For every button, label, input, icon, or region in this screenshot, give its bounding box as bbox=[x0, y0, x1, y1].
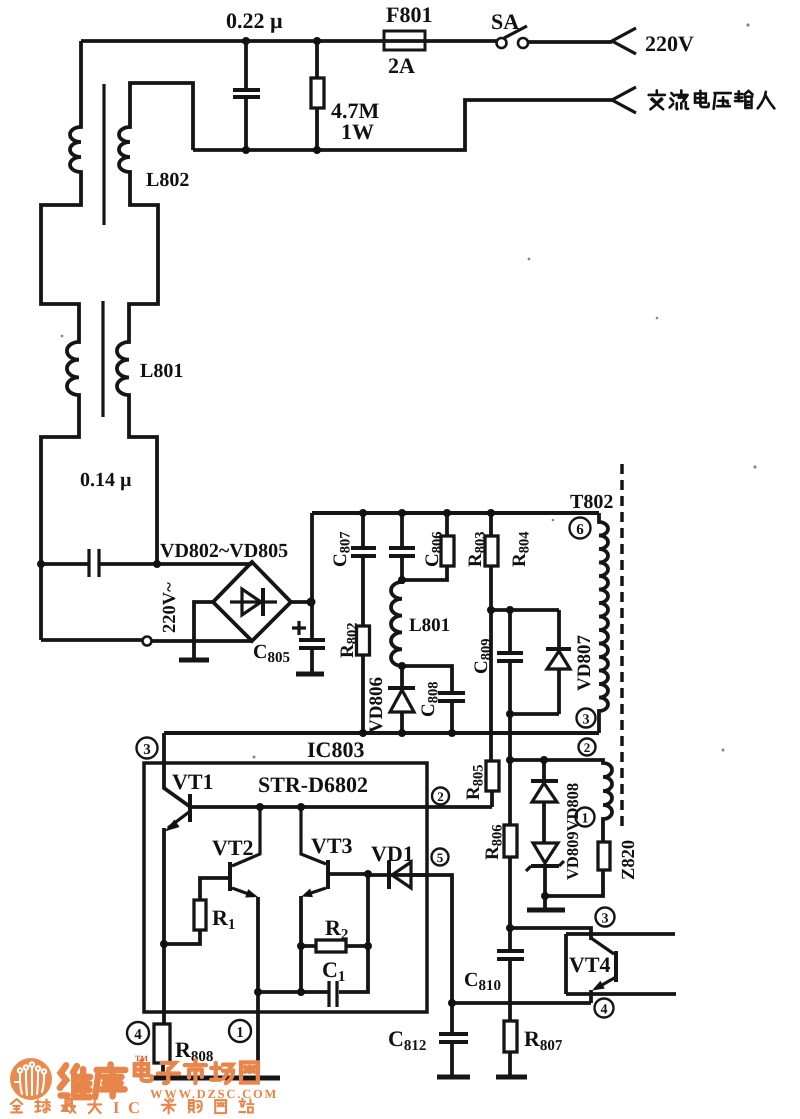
svg-text:1: 1 bbox=[236, 1025, 244, 1041]
svg-text:C808: C808 bbox=[418, 682, 442, 717]
svg-text:3: 3 bbox=[602, 912, 609, 927]
svg-text:VT3: VT3 bbox=[311, 833, 353, 858]
svg-text:R1: R1 bbox=[212, 905, 235, 933]
svg-text:VD1: VD1 bbox=[371, 841, 414, 866]
svg-text:C809: C809 bbox=[471, 639, 495, 674]
svg-text:4: 4 bbox=[134, 1027, 142, 1043]
svg-text:1W: 1W bbox=[341, 119, 374, 144]
svg-text:VD807: VD807 bbox=[574, 635, 595, 691]
svg-text:3: 3 bbox=[583, 713, 590, 728]
svg-text:C810: C810 bbox=[464, 969, 501, 994]
svg-text:WWW.DZSC.COM: WWW.DZSC.COM bbox=[150, 1087, 278, 1101]
svg-text:R802: R802 bbox=[337, 623, 361, 658]
svg-text:Z820: Z820 bbox=[619, 840, 639, 880]
svg-text:VT1: VT1 bbox=[172, 769, 214, 794]
svg-text:4: 4 bbox=[601, 1003, 608, 1018]
svg-text:F801: F801 bbox=[386, 2, 432, 27]
svg-text:6: 6 bbox=[576, 522, 584, 538]
svg-text:C805: C805 bbox=[253, 641, 290, 666]
svg-text:C812: C812 bbox=[388, 1026, 426, 1054]
svg-text:VD802~VD805: VD802~VD805 bbox=[160, 540, 288, 562]
svg-text:220V: 220V bbox=[645, 31, 694, 56]
svg-text:220V~: 220V~ bbox=[160, 582, 180, 633]
svg-text:C1: C1 bbox=[322, 957, 345, 985]
svg-text:R807: R807 bbox=[524, 1026, 563, 1054]
svg-text:R806: R806 bbox=[482, 825, 506, 860]
svg-text:C: C bbox=[128, 1098, 140, 1117]
svg-text:L801: L801 bbox=[140, 360, 183, 382]
svg-text:C806: C806 bbox=[422, 532, 446, 567]
svg-text:TM: TM bbox=[135, 1054, 148, 1063]
svg-text:VT4: VT4 bbox=[569, 952, 611, 977]
svg-text:IC803: IC803 bbox=[307, 737, 364, 762]
svg-text:1: 1 bbox=[582, 812, 589, 827]
svg-text:0.22 µ: 0.22 µ bbox=[226, 8, 283, 33]
svg-text:R803: R803 bbox=[465, 532, 489, 567]
svg-text:5: 5 bbox=[437, 850, 444, 865]
svg-text:VD809VD808: VD809VD808 bbox=[563, 783, 582, 880]
svg-text:2A: 2A bbox=[388, 53, 415, 78]
svg-text:2: 2 bbox=[584, 740, 591, 755]
svg-text:L801: L801 bbox=[409, 615, 450, 636]
svg-text:VT2: VT2 bbox=[212, 835, 254, 860]
svg-text:3: 3 bbox=[143, 742, 151, 758]
svg-text:I: I bbox=[113, 1098, 119, 1117]
svg-text:T802: T802 bbox=[570, 491, 613, 513]
svg-text:STR-D6802: STR-D6802 bbox=[258, 772, 368, 797]
svg-text:2: 2 bbox=[437, 789, 444, 804]
svg-text:SA: SA bbox=[491, 9, 519, 34]
svg-text:R2: R2 bbox=[325, 915, 348, 943]
svg-text:L802: L802 bbox=[146, 169, 189, 191]
svg-text:R805: R805 bbox=[463, 765, 487, 800]
svg-text:C807: C807 bbox=[330, 532, 354, 567]
svg-text:VD806: VD806 bbox=[366, 677, 387, 733]
svg-text:R804: R804 bbox=[509, 532, 533, 567]
svg-text:0.14 µ: 0.14 µ bbox=[80, 469, 132, 491]
